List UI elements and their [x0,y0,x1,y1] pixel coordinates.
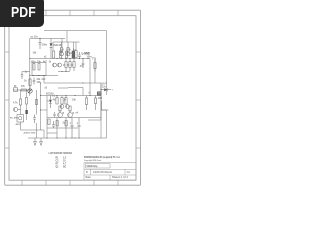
capacitor C6 polarized [77,118,81,139]
label central values [53,99,77,116]
resistor R13 [65,96,67,105]
resistor R14 [85,96,87,111]
diode D1 [50,39,53,59]
resistor R12 [61,96,63,105]
diode D2 [49,96,52,109]
label input [14,85,26,88]
capacitor C1 [39,38,42,49]
diode D3 [102,88,112,91]
wire central box outline [47,83,101,118]
input connector J1 [14,88,18,92]
capacitor C9 [33,115,36,124]
svg-text:Date:: Date: [86,176,92,179]
wire box top extension [41,96,48,111]
svg-text:BC: BC [63,166,67,168]
svg-text:SAE/B Amp: SAE/B Amp [87,164,98,168]
capacitor C3 [82,59,85,69]
resistor R27 [67,48,69,52]
notes list [56,157,67,168]
resistor R4 [72,51,75,58]
wire long vertical x90 [89,59,91,96]
ground arrow E2 [40,138,43,146]
wire bias column [26,90,28,120]
capacitor C5 polarized [70,118,74,139]
label filter values [24,79,46,84]
node dot feedback [43,75,44,76]
resistor R7 [73,59,75,72]
resistor R6 [69,59,71,72]
svg-text:100n: 100n [42,45,48,47]
resistor R2 [60,51,62,58]
capacitor C2 [78,52,81,59]
node dots on left bus [29,58,30,76]
sub box filter [32,63,46,76]
transistor Q2 [53,63,57,67]
node output dot [100,89,101,90]
wire input column [21,90,45,138]
wire upper second rail [53,42,80,51]
wire mid rail B [30,75,58,77]
resistor R15 [59,106,61,111]
wire right side drop [106,31,108,95]
resistor R20 [21,89,27,91]
resistor R23 [94,60,96,72]
svg-text:47u: 47u [80,65,85,68]
svg-text:ac 12v: ac 12v [31,36,39,39]
capacitor C7 [52,121,55,128]
wire feedback rail [44,76,102,84]
wire left vertical bus [29,39,31,97]
wire upper right bridge [68,88,83,96]
capacitor C8 polarized [25,110,27,114]
resistor R17 [48,119,50,125]
wire mid short rail A [58,71,70,73]
svg-text:1 kHz: 1 kHz [67,53,74,55]
wire stub left [22,71,30,73]
transistor Q9 [66,105,70,109]
wire bottom ground rail [28,137,107,139]
wire vertical x95 [94,59,96,84]
resistor R9 [38,64,40,71]
svg-text:LAST MODIFIED VERSIONS: LAST MODIFIED VERSIONS [49,151,73,155]
wire output link [88,83,102,120]
capacitor C10 [21,72,23,80]
resistor R5 [65,59,67,72]
node dots on central box top [56,95,90,96]
resistor R3 [66,51,68,58]
svg-text:1234-05 RevA: 1234-05 RevA [93,171,112,174]
label output net [98,84,108,100]
transistor Q7 [66,52,70,56]
svg-text:KRONOS/GERALDS (supplied) PC.: KRONOS/GERALDS (supplied) PC. Ltd. [84,155,120,159]
resistor R11 [56,96,58,105]
svg-text:Copyright 2003 Geral: Copyright 2003 Geral [84,159,101,162]
resistor R18 [56,121,58,127]
wire rail link [66,31,68,42]
opto U1 [17,115,24,123]
svg-text:RC-SRV: RC-SRV [10,118,19,120]
wire lower rail [47,127,78,129]
ground arrow E1 [34,138,37,146]
resistor R22 [25,98,27,105]
transistor Q8 [60,105,64,109]
svg-text:4.7k: 4.7k [13,102,18,105]
svg-text:OUT: OUT [102,84,107,86]
resistor R21 [19,99,21,105]
resistor R16 [69,106,71,111]
transistor Q4 [58,110,63,118]
transistor Q3 [58,63,62,67]
resistor R1 [53,51,55,58]
node dot input bus [29,89,30,90]
relay K1 [97,92,101,96]
PDF badge [0,0,44,27]
svg-text:1N4148: 1N4148 [53,44,62,47]
transistor Q6 [13,107,20,111]
title block size row [86,171,131,179]
node dots on x40.5 bus [40,82,41,110]
resistor R10 [29,78,31,89]
wire servo column [36,90,38,138]
title block outline [84,163,136,181]
svg-text:IN: IN [14,86,17,88]
svg-text:4N35: 4N35 [16,123,22,126]
transistor Q1 [60,52,64,56]
svg-text:AUDIO GND: AUDIO GND [24,131,36,134]
resistor R8 [33,64,35,71]
svg-text:TT1: TT1 [92,59,97,61]
resistor R26 [60,48,62,52]
capacitor C4 [33,78,36,85]
node dots bottom rail extra [72,138,80,139]
wire input rail [13,89,30,91]
wire top supply rail [44,30,107,32]
node junction dots on mid rail [56,58,88,59]
svg-text:4R8: 4R8 [98,97,103,100]
resistor R24 [35,100,37,105]
transistor Q5 [68,110,73,118]
capacitor C11 [53,112,55,118]
resistor R28 [94,96,96,111]
resistor R19 [65,121,67,127]
node dots rails lower [32,71,66,76]
wire lower short rail [47,132,57,134]
wire stubs to ground rail [47,118,101,139]
label row under mid rail [31,48,93,63]
trimmer RV1 [28,89,32,93]
node dots on ground rail [46,137,75,138]
svg-text:L-GND: L-GND [82,52,90,56]
wire mid rail A [30,58,90,60]
svg-text:Sheet 1 of 1: Sheet 1 of 1 [112,176,129,179]
wire upper box top rail [30,39,65,48]
wire inverting bus x40.5 [40,83,42,130]
node dot bridge [82,82,83,83]
wire output rail [102,109,109,111]
resistor R25 [75,51,77,58]
wire mid short rail B [58,87,68,89]
wire right step to bottom rail [102,101,107,138]
